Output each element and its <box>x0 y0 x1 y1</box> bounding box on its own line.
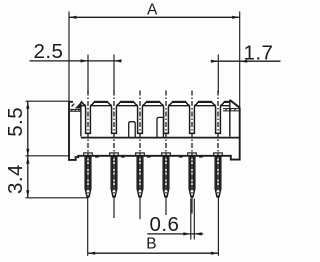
housing top surface line (rib bases) <box>81 105 230 107</box>
contact slot pin3 walls <box>134 102 146 133</box>
housing half-rib top right <box>224 101 230 103</box>
dimension 0.6 extension line right <box>193 199 195 240</box>
bottom nub bay 1-2 <box>95 156 99 158</box>
dimension A extension line right <box>239 12 241 108</box>
dimension 3.4 arrow bottom <box>26 190 29 198</box>
pin 4 inner edges <box>165 156 168 191</box>
dimension 0.6 line <box>147 233 203 235</box>
dimension 1.7 line <box>211 60 281 62</box>
bottom nub bay 4-5 <box>179 156 183 158</box>
svg-text:2.5: 2.5 <box>34 40 64 63</box>
pin 6 tail / B extension right <box>217 197 219 256</box>
pin boss 3 <box>136 153 145 156</box>
dimension A arrow right <box>232 16 240 19</box>
pin 3 tail <box>139 198 141 220</box>
dimension 5.5 extension line bottom <box>26 155 71 157</box>
housing left chamfer tick <box>72 104 75 107</box>
dimension 2.5 arrow left <box>81 59 89 62</box>
contact slot pin2 walls <box>108 102 120 133</box>
dimension 3.4 line <box>27 156 29 198</box>
pin 5 tail <box>191 198 193 214</box>
pin 1 tail / B extension left <box>87 197 89 256</box>
pin 5 body <box>189 156 195 197</box>
dimension 5.5 arrow bottom <box>26 149 29 156</box>
dimension 5.5 arrow top <box>26 101 29 109</box>
housing rib top between pins 4-5 <box>172 101 186 103</box>
pin 1 centerline <box>87 91 89 198</box>
dimension 0.6 extension line left <box>190 199 192 240</box>
inner window bay 3-4 <box>157 117 163 137</box>
svg-text:B: B <box>146 236 156 253</box>
pin 5 inner edges <box>191 156 194 191</box>
svg-text:1.7: 1.7 <box>244 41 274 64</box>
housing left hatch band <box>70 109 81 111</box>
pin 6 body <box>215 156 221 197</box>
pin 2 body <box>111 156 117 197</box>
dimension B arrow left <box>88 252 96 255</box>
housing right inner wall <box>229 100 231 137</box>
pin 4 tail <box>165 198 167 216</box>
housing outline left wall and bottom <box>69 102 240 160</box>
svg-text:0.6: 0.6 <box>150 213 180 236</box>
dimension 1.7 extension line left (pin6 centerline upper) <box>217 55 219 94</box>
housing rib top between pins 1-2 <box>94 101 108 103</box>
pin 1 inner edges <box>87 156 90 191</box>
dimension 5.5 line <box>27 101 29 156</box>
contact slot pin5 walls <box>186 102 198 133</box>
pin 2 inner edges <box>113 156 116 191</box>
dimension 3.4 extension line bottom (pin tip level) <box>26 197 88 199</box>
contact slot pin1 walls <box>82 102 94 133</box>
housing rib top between pins 5-6 <box>198 101 212 103</box>
pin 5 centerline <box>191 91 193 198</box>
contact slot pin6 walls <box>212 102 224 133</box>
dimension B line <box>88 252 219 254</box>
pin 6 inner edges <box>217 156 220 191</box>
svg-text:A: A <box>147 1 158 18</box>
pin 6 centerline <box>217 91 219 198</box>
svg-text:5.5: 5.5 <box>4 107 27 137</box>
housing rib top between pins 2-3 <box>120 101 134 103</box>
pin boss 5 <box>188 153 197 156</box>
dimension A line <box>69 16 240 18</box>
pin boss 2 <box>110 153 119 156</box>
housing half-rib top left <box>81 101 82 103</box>
dimension 2.5 arrow right <box>114 59 122 62</box>
pin 3 centerline <box>139 91 141 198</box>
housing right hatch band <box>223 109 239 111</box>
dimension 2.5 line <box>30 60 120 62</box>
pin 3 inner edges <box>139 156 142 191</box>
housing right chamfer <box>230 100 240 107</box>
housing inner bottom line <box>81 137 240 139</box>
housing rib top between pins 3-4 <box>146 101 160 103</box>
dimension 3.4 arrow top <box>26 156 29 164</box>
pin 2 tail <box>113 198 115 219</box>
bottom nub bay 2-3 <box>121 156 125 158</box>
dimension 1.7 arrow left <box>211 60 219 63</box>
pin boss 1 <box>84 153 93 156</box>
svg-text:3.4: 3.4 <box>4 164 27 194</box>
dimension 1.7 arrow right <box>240 60 248 63</box>
pin 4 body <box>163 156 169 197</box>
housing left inner wall <box>80 102 82 137</box>
dimension 2.5 extension line right (pin2 centerline upper) <box>113 55 115 94</box>
pin 2 centerline <box>113 91 115 198</box>
pin 4 centerline <box>165 91 167 198</box>
dimension 0.6 arrow left <box>183 232 191 235</box>
dimension 0.6 arrow right <box>194 232 202 235</box>
bottom nub bay 5-6 <box>199 156 203 158</box>
pin boss 4 <box>162 153 171 156</box>
housing left chamfer triangle <box>75 102 81 108</box>
inner window bay 2-3 <box>129 122 136 138</box>
contact slot pin4 walls <box>160 102 172 133</box>
dimension A extension line left <box>68 12 70 102</box>
pin 3 body <box>137 156 143 197</box>
dimension B arrow right <box>211 252 219 255</box>
dimension A arrow left <box>69 16 77 19</box>
pin boss 6 <box>214 153 223 156</box>
pin 1 body <box>85 156 91 197</box>
dimension 2.5 extension line left (pin1 centerline upper) <box>87 55 89 94</box>
bottom nub bay 3-4 <box>147 156 151 158</box>
dimension 5.5 extension line top <box>26 100 70 102</box>
